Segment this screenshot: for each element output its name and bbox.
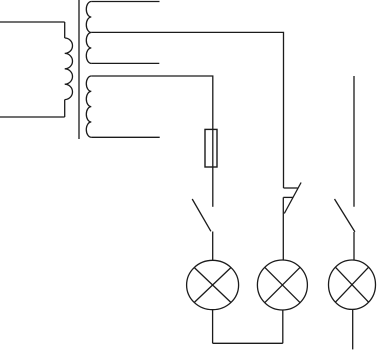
wire switch S1 to lamp L1: [212, 232, 214, 261]
contact S2 fixed bar: [284, 187, 298, 189]
wire contact S2 to lamp L2: [282, 197, 284, 260]
wire secondary1 bottom stub: [91, 62, 159, 64]
contact S2 blade: [284, 183, 301, 214]
transformer T1 core: [78, 0, 80, 139]
wire primary top terminal: [0, 21, 65, 23]
wire secondary2 bottom stub: [91, 136, 159, 138]
wire primary bottom terminal: [0, 116, 65, 118]
wire lamp L3 bottom: [352, 309, 354, 349]
contact S2 lower tick: [283, 196, 293, 198]
wire lamp L2 bottom: [282, 310, 284, 343]
wire lamp L1 bottom: [212, 310, 214, 344]
switch S3 blade: [335, 199, 355, 232]
transformer T1 secondary winding 1: [86, 2, 91, 64]
fuse F1: [205, 129, 217, 167]
wire secondary1 center tap to contact S2: [91, 32, 283, 188]
switch S1 blade: [192, 199, 211, 231]
wire secondary1 top stub: [91, 1, 159, 3]
wire secondary2 top terminal to fuse F1: [91, 76, 213, 129]
wire switch S3 to lamp L3: [353, 232, 355, 260]
wire supply to switch S3: [353, 76, 355, 207]
lamp L3: [329, 260, 376, 309]
wire primary bottom lead: [64, 100, 66, 117]
wire bottom link L1 to L2: [213, 342, 283, 344]
wire primary top lead: [64, 22, 66, 38]
transformer T1 primary winding: [65, 38, 73, 100]
lamp L1: [187, 260, 239, 309]
wire fuse F1 to switch S1: [212, 167, 214, 207]
transformer T1 secondary winding 2: [86, 76, 91, 137]
lamp L2: [257, 260, 307, 310]
